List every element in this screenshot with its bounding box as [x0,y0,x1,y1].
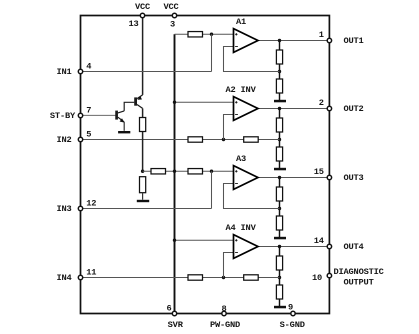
wire IN1 input line [81,71,212,73]
op-amp A3 [234,166,259,190]
pin 5 IN2 terminal [78,137,82,141]
svg-text:SVR: SVR [168,320,184,330]
wire A3 feedback divider chain [279,178,281,238]
wire A1 output to pin [258,40,329,42]
op-amp A4 INV [234,235,259,259]
resistor bias lower [140,177,146,193]
ground A2 divider [274,168,286,171]
node rail A4 + junction [173,239,176,242]
wire A3 - input feedback loop [224,184,280,209]
svg-text:IN2: IN2 [56,135,71,145]
resistor A4 feedback upper [276,256,282,270]
pin 7 ST-BY terminal [78,113,82,117]
ground A1 divider [274,100,286,103]
wire Q2 junction to SVR rail [143,170,175,172]
svg-text:A2 INV: A2 INV [226,85,257,95]
node A3 + input junction [210,170,213,173]
svg-text:PW-GND: PW-GND [210,320,240,330]
svg-text:4: 4 [86,62,91,72]
wire SVR rail to A3 + input [175,170,234,172]
node A2 output junction [278,107,281,110]
wire IN3 branch up [211,171,213,208]
node A2 divider tap [278,138,281,141]
svg-text:A1: A1 [236,17,246,27]
svg-text:ST-BY: ST-BY [50,111,76,121]
resistor A2 feedback [244,137,259,142]
resistor Q2 to SVR rail [151,169,166,174]
svg-text:VCC: VCC [163,2,178,12]
node A3 output junction [278,176,281,179]
node A1 output junction [278,39,281,42]
op-amp A1 [234,29,259,53]
IC package outline [81,16,330,314]
svg-text:OUT1: OUT1 [344,36,364,46]
wire VCC pin 13 to Q2 emitter [142,16,144,95]
svg-text:OUTPUT: OUTPUT [344,278,374,288]
pin 13 VCC terminal [140,13,144,17]
node rail A2 + junction [173,101,176,104]
resistor Q2 emitter degeneration [140,118,146,132]
resistor A3 feedback upper [276,187,282,201]
pin 15 OUT3 terminal [327,175,331,179]
resistor A4 feedback [244,275,259,280]
pin 3 VCC terminal [172,13,176,17]
wire A2 output to pin [258,108,329,110]
wire SVR rail (pin 6 to A1 bias corner) [174,34,176,313]
svg-text:OUT4: OUT4 [344,242,364,252]
svg-text:13: 13 [128,19,138,29]
node A1 + input junction [210,33,213,36]
resistor A2 feedback upper [276,118,282,132]
op-amp A4 - mark [235,252,238,254]
op-amp A4 + mark [235,239,237,241]
wire A1 feedback divider chain [279,41,281,101]
node A4 output junction [278,245,281,248]
svg-text:14: 14 [314,236,324,246]
node A1 divider tap [278,70,281,73]
pin 12 IN3 terminal [78,206,82,210]
svg-text:3: 3 [170,20,175,30]
wire IN4 input line [81,277,280,279]
wire IN1 branch up [211,34,213,71]
node A4 - input junction [222,276,225,279]
op-amp A2 INV [234,97,259,121]
svg-text:IN3: IN3 [56,204,71,214]
wire A1 - input feedback loop [224,47,280,72]
svg-text:11: 11 [86,268,96,278]
node A4 divider tap [278,276,281,279]
op-amp A1 + mark [235,33,237,35]
wire IN2 input line [81,139,280,141]
svg-text:6: 6 [166,304,171,314]
svg-text:2: 2 [319,98,324,108]
pin 8 PW-GND terminal [222,311,226,315]
ground A4 divider [274,306,286,309]
resistor A2 input series [188,137,203,142]
wire bias resistor to ground [142,193,144,200]
pin 6 SVR terminal [172,311,176,315]
op-amp A2 + mark [235,101,237,103]
wire SVR rail to A1 + input [175,33,234,35]
pin 11 IN4 terminal [78,275,82,279]
wire A4 feedback divider chain [279,247,281,307]
svg-text:OUT3: OUT3 [344,173,364,183]
svg-text:S-GND: S-GND [280,320,305,330]
svg-text:A3: A3 [236,154,246,164]
wire SVR rail to A4 + input [175,239,234,241]
pin 1 OUT1 terminal [327,38,331,42]
ground A3 divider [274,237,286,240]
svg-text:10: 10 [312,273,322,283]
wire Q2 collector down [142,108,144,171]
resistor A4 feedback lower [276,285,282,299]
ground bias network [137,200,149,202]
wire A4 output to pin [258,246,329,248]
pin 14 OUT4 terminal [327,244,331,248]
pin 10 diagnostic terminal [327,273,331,277]
node SVR rail bias junction [173,170,176,173]
svg-text:1: 1 [319,30,324,40]
resistor A1 input bias [188,32,203,37]
node Q2 bias junction [141,170,144,173]
transistor Q1 [117,111,125,123]
wire A4 - input loop [224,253,234,278]
svg-text:OUT2: OUT2 [344,104,364,114]
resistor A1 feedback lower [276,79,282,93]
op-amp A2 - mark [235,114,238,116]
resistor A3 feedback lower [276,216,282,230]
pin 2 OUT2 terminal [327,106,331,110]
transistor Q2 [136,95,143,109]
wire SVR rail to A2 + input [175,101,234,103]
pin 4 IN1 terminal [78,69,82,73]
ground Q1 emitter [118,131,130,133]
resistor A4 input series [188,275,203,280]
op-amp A3 + mark [235,170,237,172]
node A3 divider tap [278,207,281,210]
svg-text:5: 5 [86,130,91,140]
wire Q1 emitter to ground [123,122,125,131]
op-amp A1 - mark [235,46,238,48]
svg-text:VCC: VCC [135,2,150,12]
wire A2 feedback divider chain [279,109,281,169]
svg-text:12: 12 [86,199,96,209]
svg-text:15: 15 [314,167,324,177]
svg-text:IN4: IN4 [56,273,71,283]
svg-text:A4 INV: A4 INV [226,223,257,233]
svg-text:9: 9 [288,303,293,313]
pin 9 S-GND terminal [291,311,295,315]
wire Q1 collector to Q2 base [124,102,134,111]
svg-text:IN1: IN1 [56,67,71,77]
resistor A2 feedback lower [276,147,282,161]
wire IN3 input line [81,208,212,210]
resistor A3 input bias [188,169,203,174]
wire A2 - input loop [224,115,234,140]
op-amp A3 - mark [235,183,238,185]
wire A3 output to pin [258,177,329,179]
wire ST-BY to Q1 base [81,114,117,116]
svg-text:DIAGNOSTIC: DIAGNOSTIC [334,267,384,277]
svg-text:7: 7 [86,106,91,116]
node A2 - input junction [222,138,225,141]
svg-text:8: 8 [221,304,226,314]
resistor A1 feedback upper [276,50,282,64]
